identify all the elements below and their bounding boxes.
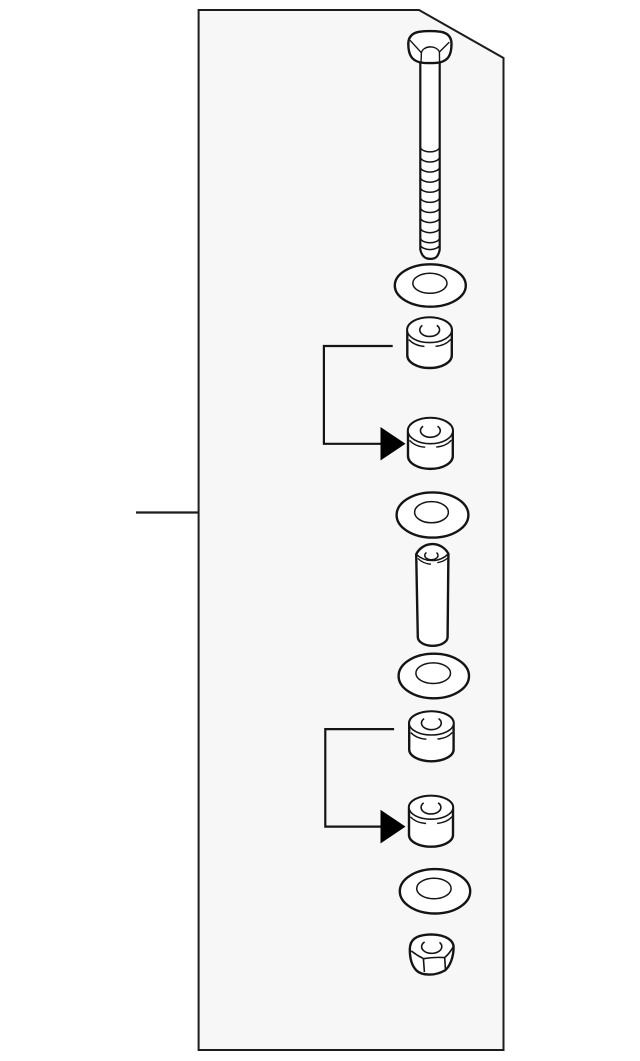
- leader line: [136, 511, 198, 513]
- washer 2: [397, 492, 469, 537]
- bushing 1: [407, 317, 452, 368]
- washer 3: [399, 654, 469, 699]
- bolt shaft: [420, 60, 439, 259]
- bushing 4: [409, 796, 453, 847]
- callout bracket 1: [324, 346, 393, 444]
- nut: [410, 934, 454, 974]
- bushing 3: [409, 711, 453, 761]
- panel background with clipped corner: [199, 10, 504, 1050]
- callout arrow 2: [381, 810, 406, 844]
- sleeve spacer: [416, 544, 448, 646]
- washer 4: [400, 869, 470, 913]
- callout arrow 1: [381, 427, 406, 461]
- callout bracket 2: [325, 729, 394, 827]
- washer 1: [395, 264, 466, 306]
- bushing 2: [408, 418, 453, 469]
- bolt head: [408, 31, 451, 63]
- bolt threads: [420, 148, 439, 250]
